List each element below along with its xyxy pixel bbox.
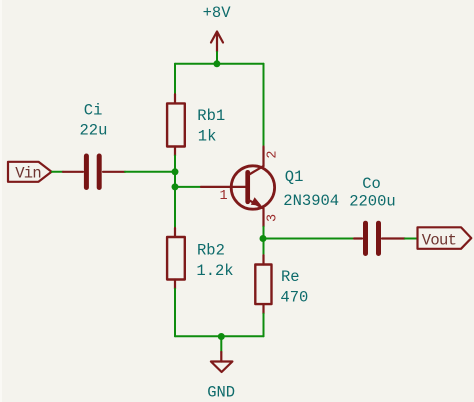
- collector line: [249, 166, 263, 175]
- svg-text:Ci: Ci: [84, 102, 103, 120]
- svg-text:2: 2: [266, 151, 281, 159]
- svg-text:470: 470: [280, 288, 308, 306]
- junction base node: [172, 183, 179, 190]
- Ci left plate: [84, 156, 89, 188]
- svg-text:1: 1: [220, 189, 228, 204]
- wire bottom rail: [175, 335, 264, 337]
- svg-text:GND: GND: [207, 383, 235, 401]
- ground: [207, 352, 235, 401]
- resistor Rb2: [167, 228, 234, 289]
- Co left plate: [363, 223, 368, 253]
- transistor Q1: [201, 147, 339, 227]
- Rb1 top pin: [174, 94, 176, 103]
- power arrow stem: [216, 33, 218, 53]
- svg-text:Rb2: Rb2: [197, 241, 225, 259]
- Co right plate: [376, 223, 381, 253]
- junction power node: [213, 60, 220, 67]
- emitter pin: [262, 208, 264, 227]
- Rb2 bottom pin: [174, 280, 176, 289]
- Co left pin: [354, 237, 362, 239]
- base pin: [201, 186, 246, 188]
- ground pin stem: [220, 352, 222, 362]
- Rb2 top pin: [174, 228, 176, 237]
- wire ground stem: [220, 337, 222, 353]
- svg-text:2N3904: 2N3904: [283, 192, 339, 210]
- junction emitter node: [260, 235, 267, 242]
- wire Vin to Ci: [52, 171, 63, 173]
- svg-text:Q1: Q1: [285, 168, 304, 186]
- svg-text:Rb1: Rb1: [197, 107, 225, 125]
- port Vin: [8, 162, 52, 183]
- capacitor Ci: [63, 102, 125, 188]
- Re bottom pin: [262, 304, 264, 314]
- Ci right pin: [103, 171, 125, 173]
- wire left rail upper: [174, 64, 176, 94]
- Ci right plate: [97, 156, 102, 188]
- wire Re to bottom rail: [263, 314, 265, 337]
- Re body: [255, 265, 271, 305]
- wire power stem: [216, 52, 218, 64]
- collector pin: [262, 147, 264, 167]
- svg-text:+8V: +8V: [203, 4, 232, 22]
- svg-text:Co: Co: [362, 175, 381, 193]
- Co right pin: [382, 237, 405, 239]
- svg-text:1.2k: 1.2k: [196, 262, 233, 280]
- wire left rail middle: [174, 156, 176, 228]
- base bar: [245, 172, 250, 202]
- Rb1 bottom pin: [174, 147, 176, 156]
- junction ground node: [218, 333, 225, 340]
- wire Ci to node: [125, 171, 175, 173]
- wire top rail: [175, 63, 264, 65]
- wire left rail lower: [174, 289, 176, 337]
- wire emitter node down: [263, 239, 265, 257]
- wire base: [175, 186, 201, 188]
- port Vout: [418, 227, 472, 249]
- Vin label outline: [8, 162, 52, 182]
- Rb1 body: [167, 103, 185, 146]
- Rb2 body: [167, 237, 185, 280]
- svg-text:22u: 22u: [80, 122, 108, 140]
- ground triangle: [211, 362, 233, 373]
- Vout label outline: [418, 227, 472, 249]
- resistor Rb1: [167, 94, 225, 155]
- svg-text:1k: 1k: [198, 127, 217, 145]
- wire collector drop: [263, 64, 265, 147]
- wire Co to Vout: [405, 238, 418, 240]
- power arrow head: [211, 32, 223, 43]
- svg-text:Re: Re: [281, 268, 300, 286]
- svg-text:3: 3: [266, 214, 281, 222]
- svg-text:Vout: Vout: [422, 231, 456, 249]
- svg-text:Vin: Vin: [15, 164, 41, 182]
- left white edge strip: [0, 0, 2, 402]
- Ci left pin: [63, 171, 83, 173]
- wire emitter node to Co: [264, 238, 355, 240]
- svg-text:2200u: 2200u: [349, 193, 396, 211]
- Re top pin: [262, 255, 264, 264]
- body circle: [231, 166, 274, 209]
- emitter arrow: [251, 197, 262, 206]
- power symbol +8V: [203, 4, 232, 52]
- resistor Re: [255, 255, 308, 314]
- emitter line: [249, 200, 263, 208]
- wire emitter to node: [263, 227, 265, 239]
- capacitor Co: [349, 175, 405, 254]
- junction input node: [172, 168, 179, 175]
